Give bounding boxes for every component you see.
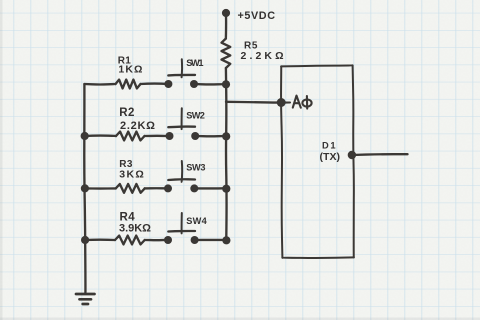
junction dot row 3 at left bus — [81, 184, 89, 192]
node +5VDC terminal dot — [222, 9, 230, 17]
junction dot row 2 at right bus — [222, 132, 230, 140]
resistor R4 — [115, 236, 145, 245]
wire row 2 right segment to bus — [195, 135, 226, 138]
wire row 3 middle segment to switch — [145, 187, 168, 189]
label A0 (A-phi) — [293, 96, 312, 109]
junction dot switch SW4 right contact — [191, 236, 199, 244]
svg-text:SW4: SW4 — [186, 216, 207, 226]
svg-text:3KΩ: 3KΩ — [119, 169, 144, 181]
svg-text:SW3: SW3 — [186, 163, 205, 173]
junction dot switch SW3 right contact — [190, 184, 198, 192]
wire row 3 left segment — [85, 187, 116, 190]
wire row 2 middle segment to switch — [145, 135, 170, 138]
svg-text:+5VDC: +5VDC — [238, 10, 276, 22]
wire right vertical bus from R5 down to row4 — [225, 68, 228, 240]
ground symbol — [76, 294, 95, 304]
junction dot switch SW3 left contact — [164, 184, 172, 192]
switch SW3 stem — [181, 161, 184, 182]
junction dot switch SW4 left contact — [164, 236, 172, 244]
switch SW2 stem — [181, 108, 183, 129]
wire left vertical bus — [84, 84, 85, 293]
resistor R5 — [222, 39, 231, 69]
junction dot row 4 at left bus — [81, 236, 89, 244]
switch SW4 stem — [181, 213, 183, 233]
junction dot switch SW1 left contact — [164, 80, 172, 88]
junction dot row 2 at left bus — [81, 132, 89, 140]
junction dot switch SW2 right contact — [191, 132, 199, 140]
wire row 1 right segment to bus — [194, 83, 226, 86]
resistor R2 — [116, 132, 145, 141]
switch SW4 bar — [168, 230, 195, 233]
junction dot D1 TX pin — [348, 151, 356, 159]
wire TX output to right — [352, 153, 408, 156]
wire row 1 left segment — [84, 83, 115, 86]
wire row 4 left segment — [85, 239, 115, 242]
switch SW2 bar — [168, 125, 195, 128]
switch SW1 stem — [181, 59, 183, 77]
resistor R3 — [116, 184, 145, 193]
switch SW3 bar — [168, 178, 195, 181]
wire from bus to D1 box (node A0) — [226, 101, 281, 104]
svg-text:(TX): (TX) — [320, 151, 341, 163]
junction dot row 3 at right bus — [222, 185, 230, 193]
wire stub right of A0 dot — [286, 101, 291, 103]
photo edge shading (decorative) — [0, 0, 3, 320]
junction dot switch SW2 left contact — [166, 132, 174, 140]
wire row 1 middle segment to switch — [141, 82, 169, 85]
wire row 4 middle segment to switch — [145, 239, 168, 242]
svg-text:R2: R2 — [119, 107, 135, 119]
IC box D1 — [281, 65, 354, 258]
wire row 3 right segment to bus — [194, 187, 226, 189]
wire row 2 left segment — [85, 134, 116, 137]
switch SW1 bar — [168, 74, 195, 77]
svg-text:2.2KΩ: 2.2KΩ — [120, 120, 155, 132]
svg-text:SW1: SW1 — [186, 58, 203, 68]
junction dot switch SW1 right contact — [190, 80, 198, 88]
svg-text:SW2: SW2 — [186, 110, 205, 120]
junction dot row 4 at right bus — [222, 236, 230, 244]
resistor R1 — [116, 80, 141, 89]
svg-text:1KΩ: 1KΩ — [118, 63, 142, 75]
junction dot node A0 at box pin — [277, 98, 286, 107]
wire from +5VDC dot down to R5 — [225, 16, 228, 39]
svg-text:3.9KΩ: 3.9KΩ — [119, 223, 151, 235]
junction dot row 1 at right bus — [222, 80, 230, 88]
wire row 4 right segment to bus — [195, 239, 226, 241]
